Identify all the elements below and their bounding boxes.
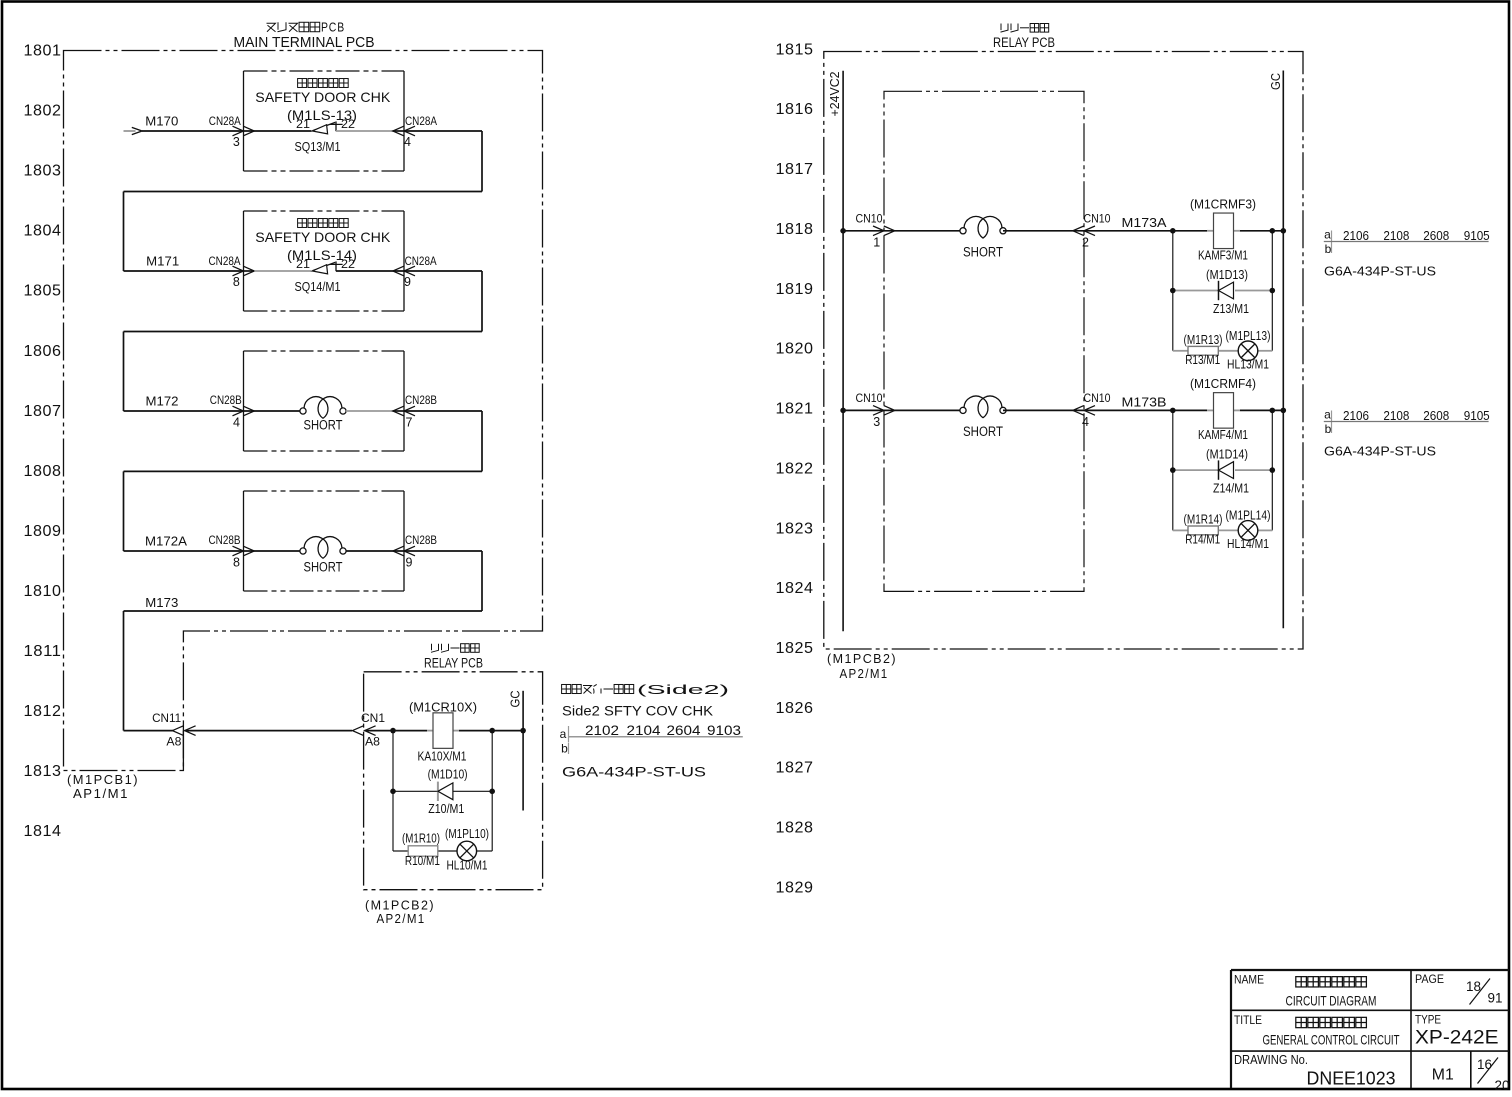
label relay part G6A-434P-ST-US (right) — [1324, 444, 1436, 459]
svg-text:1826: 1826 — [776, 700, 814, 717]
svg-text:1815: 1815 — [776, 41, 814, 58]
junction node diode row right — [489, 789, 495, 795]
zener diode Z10/M1 — [438, 782, 453, 801]
label wire M172 — [146, 394, 179, 409]
wire diode row (M173B, gray) — [1173, 469, 1273, 471]
label relay part G6A-434P-ST-US (right) — [1324, 264, 1436, 279]
svg-text:3: 3 — [233, 135, 240, 149]
board M1PCB2 RELAY PCB (right) outline — [824, 52, 1303, 650]
branch wire right vertical (M173B) — [1271, 410, 1273, 530]
connector CN28A pin 4 — [393, 114, 437, 149]
svg-text:9105: 9105 — [1464, 408, 1490, 423]
svg-text:1803: 1803 — [24, 163, 62, 180]
svg-text:1825: 1825 — [776, 640, 814, 657]
label (M1D14) Z14/M1 — [1206, 448, 1249, 496]
svg-text:HL14/M1: HL14/M1 — [1227, 537, 1269, 551]
svg-text:1814: 1814 — [24, 823, 62, 840]
wire diode row (M173A, gray) — [1173, 290, 1273, 292]
wire diode row (bottom board) — [393, 790, 492, 792]
svg-text:a: a — [1324, 408, 1331, 422]
zener diode Z13/M1 — [1219, 281, 1234, 300]
svg-text:(M1PCB1): (M1PCB1) — [67, 772, 139, 787]
junction node +24VC2 tap (M173B) — [840, 408, 846, 414]
svg-text:2604: 2604 — [667, 723, 702, 738]
junction node +24VC2 tap (M173A) — [840, 228, 846, 234]
label wire M170 — [145, 114, 178, 129]
jumper SHORT (M172A row) — [300, 537, 346, 575]
wire +24VC2 to CN10 (row M173B) — [843, 409, 884, 411]
svg-text:Z13/M1: Z13/M1 — [1213, 302, 1249, 316]
svg-text:1822: 1822 — [776, 460, 814, 477]
svg-text:1820: 1820 — [776, 341, 814, 358]
wire SQ14 left contact (gray) — [244, 270, 312, 272]
svg-text:2608: 2608 — [1423, 228, 1449, 243]
svg-text:b: b — [561, 742, 568, 756]
branch wire right vertical (bottom board) — [491, 731, 493, 851]
svg-text:1801: 1801 — [24, 43, 62, 60]
svg-text:(M1PCB2): (M1PCB2) — [827, 651, 897, 666]
svg-text:18: 18 — [1466, 979, 1481, 994]
svg-text:TYPE: TYPE — [1415, 1013, 1441, 1027]
branch wire left vertical (M173A) — [1172, 231, 1174, 351]
svg-text:HL10/M1: HL10/M1 — [447, 859, 488, 873]
wire SQ14 right contact — [336, 270, 404, 272]
svg-text:9: 9 — [406, 556, 413, 570]
svg-text:1807: 1807 — [24, 403, 62, 420]
label board title MAIN TERMINAL PCB — [234, 21, 375, 52]
connector CN28B pin 4 — [210, 393, 254, 430]
svg-text:KA10X/M1: KA10X/M1 — [418, 750, 467, 764]
svg-text:(M1PL10): (M1PL10) — [445, 827, 489, 841]
svg-text:(M1CRMF4): (M1CRMF4) — [1190, 376, 1256, 391]
svg-text:1827: 1827 — [776, 760, 814, 777]
svg-text:16: 16 — [1477, 1057, 1492, 1072]
svg-text:1811: 1811 — [24, 643, 62, 660]
svg-text:2106: 2106 — [1343, 228, 1369, 243]
svg-text:G6A-434P-ST-US: G6A-434P-ST-US — [562, 764, 706, 780]
svg-text:AP2/M1: AP2/M1 — [840, 666, 889, 681]
svg-text:1805: 1805 — [24, 283, 62, 300]
svg-text:4: 4 — [1082, 415, 1089, 429]
connector CN28A pin 8 — [209, 254, 255, 289]
limit switch SQ13/M1 contacts 21-22 — [296, 117, 355, 134]
svg-text:2608: 2608 — [1423, 408, 1449, 423]
svg-text:M172A: M172A — [145, 534, 187, 549]
label board title RELAY PCB (bottom) — [424, 644, 483, 671]
svg-text:CN10: CN10 — [1084, 391, 1111, 405]
svg-text:M170: M170 — [145, 114, 178, 129]
svg-text:1804: 1804 — [24, 223, 62, 240]
svg-text:1808: 1808 — [24, 463, 62, 480]
svg-text:1828: 1828 — [776, 820, 814, 837]
svg-text:Side2 SFTY COV CHK: Side2 SFTY COV CHK — [562, 704, 713, 719]
wire CN11 stub to board edge — [182, 731, 184, 771]
branch wire right vertical (M173A) — [1271, 231, 1273, 351]
svg-text:22: 22 — [341, 257, 355, 271]
svg-text:(Side2): (Side2) — [637, 682, 729, 697]
label node M173 — [145, 595, 178, 610]
svg-text:SQ13/M1: SQ13/M1 — [295, 139, 341, 154]
svg-text:91: 91 — [1488, 991, 1503, 1006]
title block TITLE / GENERAL CONTROL CIRCUIT — [1234, 1013, 1400, 1047]
svg-text:1810: 1810 — [24, 583, 62, 600]
svg-text:MAIN TERMINAL PCB: MAIN TERMINAL PCB — [234, 35, 375, 51]
svg-text:GC: GC — [509, 691, 523, 708]
junction node diode row left — [390, 789, 396, 795]
wire CN1 to relay coil row — [365, 730, 523, 732]
wire loop M170 row to M171 row — [124, 131, 483, 271]
label SAFETY DOOR CHK (M1LS-14) — [255, 219, 391, 263]
junction node coil right branch — [489, 728, 495, 734]
wire M171 — [124, 270, 244, 272]
wire CN11 to CN1 (M173 continuation) — [185, 730, 352, 732]
label (M1PL10) HL10/M1 — [445, 827, 489, 873]
label board ref (M1PCB2) AP2/M1 (right) — [827, 651, 897, 681]
resistor R10/M1 — [408, 846, 438, 856]
svg-text:CN1: CN1 — [361, 711, 385, 725]
connector CN10 pin 1 — [856, 212, 895, 250]
junction node diode left (M173A) — [1170, 288, 1176, 294]
connector CN28B pin 8 — [209, 533, 255, 570]
svg-text:CN28A: CN28A — [209, 254, 241, 268]
connector CN11 pin A8 — [152, 711, 196, 749]
svg-text:GC: GC — [1269, 73, 1283, 90]
grid row labels 1801-1814 (left) — [24, 43, 62, 841]
subcircuit box SHORT jumper CN28B 4-7 — [244, 351, 405, 451]
svg-text:8: 8 — [233, 556, 240, 570]
connector CN1 pin A8 — [352, 711, 385, 749]
label (M1R13) R13/M1 — [1184, 333, 1223, 367]
label (M1PL14) HL14/M1 — [1226, 508, 1271, 551]
svg-text:(M1D10): (M1D10) — [428, 768, 468, 782]
svg-text:SQ14/M1: SQ14/M1 — [295, 279, 341, 294]
svg-text:1823: 1823 — [776, 520, 814, 537]
svg-text:1821: 1821 — [776, 401, 814, 418]
svg-text:1817: 1817 — [776, 161, 814, 178]
inner jumper block outline (CN10) — [884, 91, 1084, 591]
svg-text:DNEE1023: DNEE1023 — [1307, 1069, 1396, 1089]
connector CN10 pin 4 — [1073, 391, 1111, 429]
junction node diode left (M173B) — [1170, 467, 1176, 473]
net +24VC2 rail — [828, 71, 843, 632]
svg-text:b: b — [1325, 422, 1332, 436]
title block sheet M1 16/20 — [1432, 1057, 1510, 1093]
svg-text:NAME: NAME — [1234, 973, 1264, 987]
zener diode Z14/M1 — [1219, 460, 1234, 479]
svg-text:22: 22 — [341, 117, 355, 131]
wire loop M172 row to M172A row — [124, 411, 483, 551]
svg-text:Z10/M1: Z10/M1 — [428, 802, 464, 816]
svg-text:Z14/M1: Z14/M1 — [1213, 482, 1249, 496]
wire from SHORT jumper (gray) — [346, 410, 404, 412]
svg-text:+24VC2: +24VC2 — [828, 71, 842, 116]
svg-text:1812: 1812 — [24, 703, 62, 720]
subcircuit box SAFETY DOOR CHK (M1LS-14) — [244, 211, 405, 311]
svg-text:1806: 1806 — [24, 343, 62, 360]
wire node M173 loop to CN11 — [124, 551, 483, 731]
label (M1R14) R14/M1 — [1184, 512, 1223, 546]
label wire M173B — [1122, 394, 1167, 409]
wire M172A — [124, 550, 244, 552]
label SAFETY DOOR CHK (M1LS-13) — [255, 79, 391, 123]
label wire M172A — [145, 534, 187, 549]
junction node diode right (M173B) — [1270, 467, 1276, 473]
junction node branch right (M173B) — [1270, 408, 1276, 414]
branch wire left vertical (M173B) — [1172, 410, 1174, 530]
grid row labels 1815-1829 (right) — [776, 41, 814, 896]
branch wire left vertical (bottom board) — [392, 731, 394, 851]
relay coil KAMF3/M1 — [1214, 213, 1234, 249]
svg-text:(M1R14): (M1R14) — [1184, 512, 1223, 526]
wire M173B to relay coil — [1084, 409, 1283, 411]
svg-text:TITLE: TITLE — [1234, 1013, 1262, 1027]
title block NAME / CIRCUIT DIAGRAM — [1234, 973, 1377, 1009]
svg-text:2102: 2102 — [585, 723, 619, 738]
svg-text:1816: 1816 — [776, 101, 814, 118]
resistor R14/M1 — [1188, 526, 1218, 535]
net GC vertical (bottom board) — [509, 691, 523, 811]
wire to SHORT jumper (M173A row) — [884, 230, 963, 232]
svg-text:CN28A: CN28A — [209, 114, 241, 128]
connector CN28B pin 9 — [393, 533, 437, 570]
svg-text:1824: 1824 — [776, 580, 814, 597]
connector CN10 pin 2 — [1073, 212, 1111, 250]
svg-text:(M1PL14): (M1PL14) — [1226, 508, 1271, 522]
svg-text:1809: 1809 — [24, 523, 62, 540]
label wire M171 — [146, 254, 179, 269]
svg-text:(M1R10): (M1R10) — [402, 832, 440, 846]
svg-text:M171: M171 — [146, 254, 179, 269]
connector CN28B pin 7 — [393, 393, 437, 430]
wire from SHORT jumper (M172A row) — [346, 550, 404, 552]
svg-text:KAMF4/M1: KAMF4/M1 — [1198, 428, 1248, 442]
svg-text:CN11: CN11 — [152, 711, 181, 725]
subcircuit box SAFETY DOOR CHK (M1LS-13) — [244, 71, 405, 171]
svg-text:CN28B: CN28B — [209, 533, 241, 547]
svg-text:A8: A8 — [166, 735, 181, 749]
svg-text:SHORT: SHORT — [963, 244, 1003, 259]
wire from SHORT jumper (M173B row) — [1003, 409, 1084, 411]
annotation Side2 SFTY COV CHK — [562, 682, 729, 719]
lamp HL13/M1 — [1238, 341, 1258, 361]
board M1PCB2 RELAY PCB (bottom) outline — [364, 672, 543, 890]
board M1PCB1 MAIN TERMINAL PCB outline — [64, 51, 543, 771]
svg-text:21: 21 — [296, 117, 310, 131]
svg-text:1813: 1813 — [24, 763, 62, 780]
svg-text:a: a — [1324, 228, 1331, 242]
label (M1D13) Z13/M1 — [1206, 268, 1249, 316]
wire loop M171 row to M172 row — [124, 271, 483, 411]
wire to SHORT jumper — [244, 410, 301, 412]
lamp HL14/M1 — [1238, 521, 1258, 541]
label (M1PL13) HL13/M1 — [1226, 329, 1271, 372]
label SQ14/M1 — [295, 279, 341, 294]
svg-text:CN28B: CN28B — [210, 393, 242, 407]
svg-text:CN10: CN10 — [856, 212, 883, 226]
svg-text:M173B: M173B — [1122, 394, 1167, 409]
label SQ13/M1 — [295, 139, 341, 154]
wire from SHORT jumper (M173A row) — [1003, 230, 1084, 232]
svg-text:9103: 9103 — [707, 723, 741, 738]
svg-text:20: 20 — [1495, 1078, 1510, 1092]
svg-text:9: 9 — [404, 275, 411, 289]
junction node GC tap (M173A) — [1281, 228, 1287, 234]
svg-text:1829: 1829 — [776, 879, 814, 896]
svg-text:CIRCUIT DIAGRAM: CIRCUIT DIAGRAM — [1286, 993, 1377, 1009]
svg-text:4: 4 — [233, 416, 240, 430]
label (M1R10) R10/M1 — [402, 832, 440, 869]
lamp HL10/M1 — [457, 841, 477, 861]
junction node branch right (M173A) — [1270, 228, 1276, 234]
wire SQ13 left contact — [244, 130, 312, 132]
svg-text:2108: 2108 — [1383, 408, 1409, 423]
title block frame — [1231, 970, 1509, 1088]
svg-text:M172: M172 — [146, 394, 179, 409]
svg-text:M173: M173 — [145, 595, 178, 610]
svg-text:2108: 2108 — [1383, 228, 1409, 243]
svg-text:1: 1 — [873, 236, 880, 250]
svg-text:7: 7 — [406, 416, 413, 430]
svg-text:R10/M1: R10/M1 — [405, 854, 440, 868]
svg-text:HL13/M1: HL13/M1 — [1227, 358, 1269, 372]
svg-text:R13/M1: R13/M1 — [1185, 353, 1220, 367]
label (M1CR10X) KA10X/M1 — [409, 700, 477, 764]
svg-text:SHORT: SHORT — [304, 418, 343, 433]
svg-text:AP2/M1: AP2/M1 — [377, 911, 426, 926]
label (M1CRMF3) KAMF3/M1 — [1190, 196, 1256, 262]
wire M170 entry arrow — [124, 127, 244, 134]
svg-text:CN10: CN10 — [856, 391, 883, 405]
label relay part G6A-434P-ST-US (bottom) — [562, 764, 706, 780]
junction node CN1 branch — [390, 728, 396, 734]
cross-reference a/b 2106 2108 2608 9105 — [1324, 408, 1490, 437]
svg-text:SAFETY DOOR CHK: SAFETY DOOR CHK — [255, 89, 391, 105]
connector CN28A pin 9 — [393, 254, 437, 289]
svg-text:CN10: CN10 — [1084, 212, 1111, 226]
svg-text:R14/M1: R14/M1 — [1185, 533, 1220, 547]
title block TYPE XP-242E — [1415, 1013, 1499, 1049]
title block PAGE 18/91 — [1415, 972, 1503, 1006]
svg-text:(M1PL13): (M1PL13) — [1226, 329, 1271, 343]
resistor R13/M1 — [1188, 346, 1218, 355]
svg-text:b: b — [1325, 242, 1332, 256]
label wire M173A — [1122, 215, 1167, 230]
wire M173A to relay coil — [1084, 230, 1283, 232]
jumper SHORT (M173B row) — [960, 396, 1006, 439]
svg-text:2106: 2106 — [1343, 408, 1369, 423]
svg-text:8: 8 — [233, 275, 240, 289]
svg-text:G6A-434P-ST-US: G6A-434P-ST-US — [1324, 444, 1436, 459]
svg-text:CN28A: CN28A — [405, 114, 437, 128]
svg-text:SAFETY DOOR CHK: SAFETY DOOR CHK — [255, 229, 391, 245]
wire to SHORT jumper (M173B row) — [884, 409, 963, 411]
connector CN28A pin 3 — [209, 114, 254, 149]
jumper SHORT (M172 row) — [300, 397, 346, 433]
junction node branch left (M173A) — [1170, 228, 1176, 234]
label (M1D10) Z10/M1 — [428, 768, 468, 816]
svg-text:RELAY PCB: RELAY PCB — [424, 656, 483, 671]
cross-reference a/b 2102 2104 2604 9103 — [560, 723, 743, 756]
svg-text:XP-242E: XP-242E — [1415, 1028, 1499, 1049]
svg-text:KAMF3/M1: KAMF3/M1 — [1198, 248, 1248, 262]
svg-text:DRAWING No.: DRAWING No. — [1234, 1052, 1308, 1067]
svg-text:2: 2 — [1082, 236, 1089, 250]
svg-text:a: a — [560, 727, 567, 741]
subcircuit box SHORT jumper CN28B 8-9 — [244, 491, 405, 591]
wire to SHORT jumper (M172A row) — [244, 550, 301, 552]
title block DRAWING No. DNEE1023 — [1234, 1052, 1396, 1089]
svg-text:2104: 2104 — [627, 723, 662, 738]
svg-text:(M1D14): (M1D14) — [1206, 448, 1248, 462]
junction node GC tap (M173B) — [1281, 408, 1287, 414]
svg-text:(M1CR10X): (M1CR10X) — [409, 700, 477, 715]
svg-text:9105: 9105 — [1464, 228, 1490, 243]
svg-text:4: 4 — [404, 135, 411, 149]
wire resistor-lamp row (bottom board) — [393, 850, 492, 852]
label board title RELAY PCB (right) — [993, 24, 1055, 50]
svg-text:PAGE: PAGE — [1415, 972, 1444, 986]
svg-text:1802: 1802 — [24, 103, 62, 120]
limit switch SQ14/M1 contacts 21-22 — [296, 257, 355, 274]
svg-text:G6A-434P-ST-US: G6A-434P-ST-US — [1324, 264, 1436, 279]
cross-reference a/b 2106 2108 2608 9105 — [1324, 228, 1490, 257]
svg-text:1818: 1818 — [776, 221, 814, 238]
svg-text:M1: M1 — [1432, 1067, 1454, 1084]
svg-text:A8: A8 — [365, 735, 380, 749]
connector CN10 pin 3 — [856, 391, 895, 429]
svg-text:AP1/M1: AP1/M1 — [73, 786, 129, 801]
svg-text:M173A: M173A — [1122, 215, 1167, 230]
label (M1CRMF4) KAMF4/M1 — [1190, 376, 1256, 442]
svg-text:(M1R13): (M1R13) — [1184, 333, 1223, 347]
jumper SHORT (M173A row) — [960, 216, 1006, 259]
svg-text:SHORT: SHORT — [304, 560, 343, 575]
svg-text:CN28B: CN28B — [405, 393, 437, 407]
svg-text:RELAY PCB: RELAY PCB — [993, 35, 1055, 50]
relay coil KAMF4/M1 — [1214, 393, 1234, 429]
svg-text:21: 21 — [296, 257, 310, 271]
svg-text:(M1CRMF3): (M1CRMF3) — [1190, 196, 1256, 211]
label board ref (M1PCB2) AP2/M1 (bottom) — [365, 898, 435, 927]
net GC rail (right) — [1269, 71, 1283, 629]
svg-text:SHORT: SHORT — [963, 424, 1003, 439]
label board ref (M1PCB1) AP1/M1 — [67, 772, 139, 801]
svg-text:CN28B: CN28B — [405, 533, 437, 547]
junction node diode right (M173A) — [1270, 288, 1276, 294]
wire resistor-lamp row (M173A, gray) — [1173, 350, 1273, 352]
svg-text:1819: 1819 — [776, 281, 814, 298]
wire SQ13 right contact (gray) — [336, 130, 404, 132]
wire resistor-lamp row (M173B, gray) — [1173, 529, 1273, 531]
relay coil KA10X/M1 — [433, 713, 453, 749]
svg-text:PCB: PCB — [321, 21, 345, 35]
svg-text:GENERAL CONTROL CIRCUIT: GENERAL CONTROL CIRCUIT — [1263, 1031, 1400, 1047]
wire +24VC2 to CN10 (row M173A) — [843, 230, 884, 232]
wire M172 — [124, 410, 244, 412]
junction node GC tap (bottom board) — [520, 728, 526, 734]
svg-text:(M1D13): (M1D13) — [1206, 268, 1248, 282]
svg-text:CN28A: CN28A — [405, 254, 437, 268]
svg-text:3: 3 — [873, 415, 880, 429]
junction node branch left (M173B) — [1170, 408, 1176, 414]
